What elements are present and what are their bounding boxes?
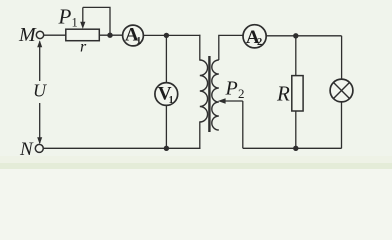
wire M to P1 xyxy=(44,34,66,36)
wire A1 to junction and to transformer xyxy=(144,34,200,36)
resistor R xyxy=(292,76,303,111)
terminal M xyxy=(36,31,43,38)
svg-text:2: 2 xyxy=(257,37,262,48)
junction dot bottom (V1 tap) xyxy=(164,146,169,151)
rheostat P1 box xyxy=(66,29,100,41)
svg-text:1: 1 xyxy=(169,95,174,106)
wire junction down to V1 top xyxy=(165,35,167,82)
svg-text:2: 2 xyxy=(238,86,245,101)
svg-text:1: 1 xyxy=(72,16,78,30)
wire P1 right to A1 xyxy=(99,34,122,36)
lamp branch down lead xyxy=(341,36,343,79)
P2 tap arrow xyxy=(225,100,243,102)
U voltage arrow lower shaft xyxy=(39,103,41,143)
junction dot top (V1 tap) xyxy=(164,33,169,38)
R top lead xyxy=(295,36,297,76)
secondary winding top lead xyxy=(219,35,243,60)
svg-text:M: M xyxy=(18,24,37,46)
primary coil bottom lead xyxy=(199,122,201,148)
paper background xyxy=(0,0,392,169)
junction dot R top xyxy=(293,33,298,38)
svg-text:1: 1 xyxy=(136,36,141,47)
secondary bottom rail xyxy=(243,147,342,149)
P1 wiper arrow xyxy=(82,7,84,23)
svg-text:R: R xyxy=(276,82,290,106)
svg-text:r: r xyxy=(80,39,87,56)
R bottom lead xyxy=(295,111,297,148)
svg-text:U: U xyxy=(33,81,47,101)
primary coil top lead xyxy=(199,35,201,60)
lamp bottom lead xyxy=(341,102,343,148)
junction dot R bottom xyxy=(293,146,298,151)
terminal N xyxy=(35,144,43,152)
transformer core xyxy=(208,56,210,132)
voltmeter V1 xyxy=(155,83,178,106)
wire A2 to junction to lamp branch xyxy=(266,35,342,37)
junction dot at P1 output xyxy=(107,33,112,38)
transformer secondary winding xyxy=(212,60,219,130)
svg-text:P: P xyxy=(58,5,72,29)
bottom rail N to transformer xyxy=(43,147,199,149)
P2 tap wire down xyxy=(242,101,244,148)
svg-text:N: N xyxy=(19,139,34,160)
ammeter A2 xyxy=(243,25,266,48)
lamp xyxy=(330,79,353,102)
P1 wiper link wire xyxy=(83,7,110,35)
svg-text:P: P xyxy=(225,78,238,100)
ammeter A1 xyxy=(123,25,144,46)
U voltage arrow upper shaft xyxy=(39,42,41,82)
wire V1 bottom to bottom rail xyxy=(165,106,167,148)
transformer primary winding xyxy=(200,60,208,122)
